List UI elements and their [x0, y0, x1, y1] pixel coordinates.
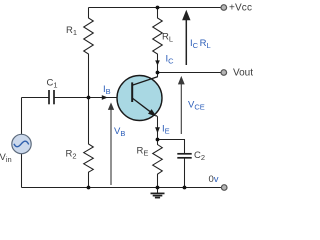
svg-text:+Vcc: +Vcc [229, 3, 252, 14]
svg-text:0v: 0v [209, 174, 219, 185]
svg-text:Vout: Vout [233, 68, 253, 79]
